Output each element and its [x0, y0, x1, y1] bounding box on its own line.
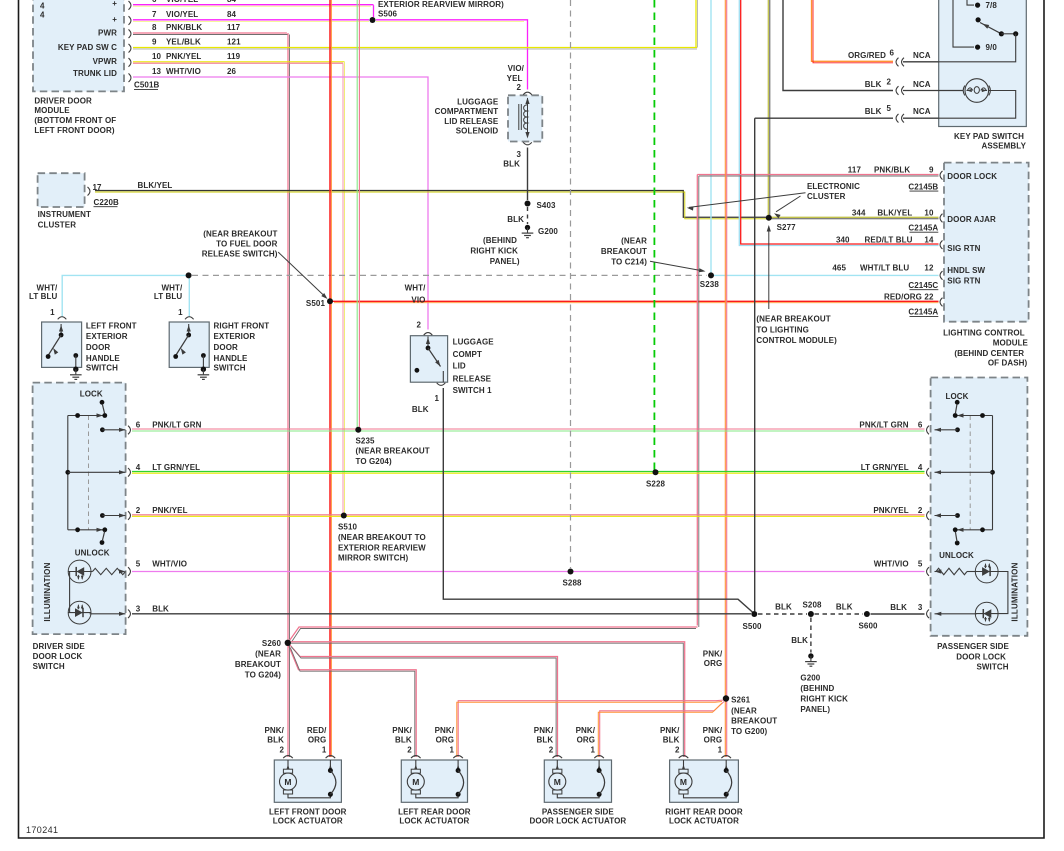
wire dashed green to S228 [653, 0, 655, 470]
wire BLK dashed S500-S208 [758, 613, 807, 615]
svg-text:PNK/: PNK/ [703, 649, 723, 658]
svg-text:DOOR LOCK: DOOR LOCK [956, 652, 1006, 661]
arrow fuel door to S501 [278, 252, 326, 297]
svg-text:(NEAR: (NEAR [621, 237, 647, 246]
svg-text:PNK/: PNK/ [264, 726, 284, 735]
svg-text:LT BLU: LT BLU [154, 292, 183, 301]
svg-text:BLK: BLK [412, 405, 429, 414]
key pad switch assembly box [939, 0, 1027, 127]
wire NCA keypad2 [903, 90, 964, 92]
svg-text:TO FUEL DOOR: TO FUEL DOOR [216, 240, 277, 249]
svg-text:VIO/YEL: VIO/YEL [166, 0, 198, 4]
svg-text:KEY PAD SWITCH: KEY PAD SWITCH [954, 132, 1024, 141]
svg-text:ORG: ORG [308, 736, 327, 745]
svg-text:S235: S235 [356, 437, 376, 446]
svg-text:TO C214): TO C214) [611, 258, 647, 267]
svg-text:344: 344 [852, 208, 866, 217]
right handle switch ground [201, 367, 206, 372]
wire WHT/LT BLU 465 to pin12 [711, 274, 939, 276]
svg-text:9: 9 [152, 38, 157, 47]
svg-text:M: M [680, 777, 687, 787]
pin bracket C501B pin 7 [129, 16, 131, 25]
pin bracket LCM pin 9 [940, 171, 942, 180]
svg-text:C220B: C220B [94, 198, 120, 207]
wire BLK dashed S208-S600 [815, 613, 864, 615]
driver LED2 to pin3 [90, 613, 126, 615]
wire PNK/BLK S260 branch left rear [289, 646, 416, 757]
svg-text:LOCK ACTUATOR: LOCK ACTUATOR [273, 817, 343, 826]
wire BLK keypad5 horizontal [755, 117, 893, 119]
wire PNK/BLK S260 branch passenger [290, 645, 558, 757]
svg-text:4: 4 [40, 11, 45, 20]
svg-text:EXTERIOR REARVIEW: EXTERIOR REARVIEW [338, 543, 426, 552]
svg-text:INSTRUMENT: INSTRUMENT [38, 210, 91, 219]
svg-text:DRIVER DOOR: DRIVER DOOR [34, 96, 92, 105]
svg-text:9/0: 9/0 [986, 43, 998, 52]
svg-text:S208: S208 [802, 601, 822, 610]
right front exterior door handle switch box [169, 322, 209, 367]
svg-text:BREAKOUT: BREAKOUT [731, 717, 777, 726]
svg-text:LIGHTING CONTROL: LIGHTING CONTROL [943, 329, 1025, 338]
svg-text:BLK/YEL: BLK/YEL [138, 181, 173, 190]
svg-text:1: 1 [178, 308, 183, 317]
pin bracket C501B pin 9 [129, 44, 131, 53]
svg-text:SWITCH: SWITCH [86, 364, 118, 373]
svg-text:(BEHIND CENTER: (BEHIND CENTER [954, 349, 1024, 358]
svg-text:LOCK ACTUATOR: LOCK ACTUATOR [399, 817, 469, 826]
svg-text:VPWR: VPWR [93, 57, 118, 66]
svg-text:C2145A: C2145A [908, 223, 938, 232]
svg-text:PWR: PWR [98, 29, 117, 38]
svg-text:MIRROR SWITCH): MIRROR SWITCH) [338, 554, 409, 563]
svg-text:PNK/: PNK/ [435, 726, 455, 735]
svg-text:7: 7 [152, 10, 157, 19]
svg-text:2: 2 [887, 77, 892, 86]
wire ORG/RED keypad [812, 0, 894, 61]
svg-text:OF DASH): OF DASH) [988, 359, 1028, 368]
wire PNK/ORG S261 down to right rear pin1 [724, 701, 726, 757]
wire WHT/LT BLU right handle switch [188, 275, 190, 316]
pin arc right handle switch [185, 317, 194, 320]
svg-text:S260: S260 [262, 639, 282, 648]
svg-text:UNLOCK: UNLOCK [75, 549, 110, 558]
svg-text:117: 117 [227, 23, 241, 32]
wire BLK pin3 row to S500 [132, 613, 751, 615]
pin arcs right rear actuator [679, 756, 689, 759]
svg-text:3: 3 [136, 604, 141, 613]
svg-text:C2145A: C2145A [908, 308, 938, 317]
svg-text:BREAKOUT: BREAKOUT [235, 660, 281, 669]
keypad 9/0 contact [953, 0, 974, 47]
wire PNK/ORG vertical to S261 [724, 0, 726, 696]
wire BLK keypad5 vertical [754, 118, 756, 611]
svg-text:PNK/YEL: PNK/YEL [873, 506, 908, 515]
svg-text:NCA: NCA [913, 51, 931, 60]
pin bracket LCM pin 22 [940, 298, 942, 307]
left front door lock actuator box [274, 760, 341, 802]
svg-text:ORG/RED: ORG/RED [848, 51, 886, 60]
svg-text:LID RELEASE: LID RELEASE [444, 117, 499, 126]
svg-text:S506: S506 [378, 10, 398, 19]
driver LED illumination 2 [68, 601, 91, 624]
pin bracket passenger switch pin 2 [927, 511, 929, 520]
svg-text:LOCK: LOCK [80, 390, 103, 399]
node S228 [653, 469, 659, 475]
svg-text:PASSENGER SIDE: PASSENGER SIDE [937, 642, 1009, 651]
svg-text:1: 1 [591, 746, 596, 755]
svg-text:ORG: ORG [704, 736, 723, 745]
svg-text:LEFT FRONT DOOR): LEFT FRONT DOOR) [34, 126, 114, 135]
wire BLK luggage switch to S500 [443, 388, 753, 613]
wire PNK/BLK 117 pin8 down to S260 [133, 32, 287, 34]
svg-text:17: 17 [93, 183, 103, 192]
svg-text:TO LIGHTING: TO LIGHTING [756, 325, 809, 334]
node S235 [355, 427, 361, 433]
svg-text:LT BLU: LT BLU [29, 292, 58, 301]
svg-text:(NEAR: (NEAR [255, 650, 281, 659]
svg-text:TO G200): TO G200) [731, 727, 767, 736]
svg-text:COMPT: COMPT [453, 350, 482, 359]
svg-text:MODULE: MODULE [34, 106, 70, 115]
svg-text:6: 6 [136, 421, 141, 430]
svg-text:2: 2 [136, 506, 141, 515]
right rear actuator motor [683, 760, 685, 770]
svg-text:BLK: BLK [267, 736, 284, 745]
svg-text:3: 3 [516, 150, 521, 159]
pin arcs left front actuator [283, 756, 293, 759]
pin bracket passenger switch pin 5 [927, 567, 929, 576]
svg-text:S288: S288 [562, 579, 582, 588]
svg-text:RELEASE SWITCH): RELEASE SWITCH) [202, 250, 278, 259]
passenger resistor pin5 [936, 568, 967, 574]
pin bracket LCM pin 12 [940, 271, 942, 280]
svg-text:NCA: NCA [913, 107, 931, 116]
pin bracket driver switch pin 4 [128, 468, 130, 477]
svg-text:26: 26 [227, 67, 237, 76]
left rear actuator motor [415, 760, 417, 770]
arrow near breakout to S277 [768, 227, 770, 310]
wire PNK/YEL row pin2 [132, 514, 925, 516]
node handle junction [186, 272, 192, 278]
svg-text:SIG RTN: SIG RTN [947, 244, 980, 253]
passenger LED2 to pin3 [935, 613, 977, 615]
svg-text:PNK/LT GRN: PNK/LT GRN [859, 421, 908, 430]
svg-text:LID: LID [453, 362, 466, 371]
svg-text:M: M [284, 777, 291, 787]
svg-text:84: 84 [227, 10, 237, 19]
driver LED illumination 1 [68, 560, 91, 583]
left rear door lock actuator box [401, 760, 467, 802]
inline connector keypad pin 5 [896, 114, 898, 123]
svg-text:HNDL SW: HNDL SW [947, 266, 985, 275]
svg-text:(NEAR: (NEAR [731, 707, 757, 716]
wire dashed to S238 [192, 274, 707, 276]
ground G200 center [525, 225, 530, 230]
svg-text:RIGHT FRONT: RIGHT FRONT [214, 321, 270, 330]
svg-text:SWITCH: SWITCH [976, 663, 1008, 672]
arrow electronic cluster to wire [689, 193, 806, 208]
svg-text:DOOR: DOOR [86, 343, 111, 352]
svg-text:TRUNK LID: TRUNK LID [73, 69, 117, 78]
svg-text:BLK: BLK [152, 604, 169, 613]
svg-text:RED/LT BLU: RED/LT BLU [865, 236, 913, 245]
pin bracket C501B pin 13 [129, 73, 131, 82]
svg-text:SWITCH: SWITCH [33, 662, 65, 671]
node S260 [285, 640, 291, 646]
svg-text:14: 14 [924, 236, 934, 245]
node S277 [766, 215, 772, 221]
svg-text:PNK/: PNK/ [660, 726, 680, 735]
svg-text:LT GRN/YEL: LT GRN/YEL [861, 463, 909, 472]
svg-text:BREAKOUT: BREAKOUT [601, 247, 647, 256]
svg-text:WHT/VIO: WHT/VIO [166, 67, 201, 76]
left handle switch ground [73, 367, 78, 372]
pin bracket LCM pin 10 [940, 214, 942, 223]
svg-text:LEFT FRONT: LEFT FRONT [86, 321, 137, 330]
svg-text:(NEAR BREAKOUT: (NEAR BREAKOUT [756, 315, 830, 324]
svg-text:G200: G200 [800, 674, 820, 683]
svg-text:(NEAR BREAKOUT: (NEAR BREAKOUT [356, 447, 430, 456]
svg-text:S238: S238 [700, 280, 720, 289]
svg-text:TO G204): TO G204) [356, 457, 392, 466]
driver resistor pin5 [93, 568, 126, 574]
svg-text:BLK: BLK [507, 215, 524, 224]
svg-text:2: 2 [416, 320, 421, 329]
passenger LED illumination 1 [975, 560, 998, 583]
svg-text:RELEASE: RELEASE [453, 374, 492, 383]
svg-text:PNK/: PNK/ [576, 726, 596, 735]
driver LED connect left [69, 572, 71, 613]
svg-text:2: 2 [549, 746, 554, 755]
svg-text:C2145B: C2145B [908, 182, 938, 191]
pin bracket C220B pin 17 [88, 187, 90, 196]
svg-text:8: 8 [152, 23, 157, 32]
svg-text:13: 13 [152, 67, 162, 76]
left front exterior door handle switch box [42, 322, 82, 367]
svg-text:ORG: ORG [704, 659, 723, 668]
left handle switch mechanism [60, 324, 62, 334]
svg-text:WHT/: WHT/ [161, 284, 183, 293]
keypad illumination lamp [965, 79, 989, 103]
svg-text:6: 6 [890, 48, 895, 57]
svg-text:BLK: BLK [663, 736, 680, 745]
svg-text:S600: S600 [858, 622, 878, 631]
wire WHT/VIO row pin5 [132, 571, 925, 573]
wire PNK/LT GRN vertical to S235 [356, 0, 358, 428]
svg-text:YEL/BLK: YEL/BLK [166, 38, 201, 47]
wire PNK/BLK S260 down to actuator1 [287, 645, 289, 757]
svg-text:DRIVER SIDE: DRIVER SIDE [33, 642, 86, 651]
svg-text:(NEAR BREAKOUT TO: (NEAR BREAKOUT TO [338, 533, 426, 542]
svg-text:121: 121 [227, 38, 241, 47]
svg-text:SWITCH 1: SWITCH 1 [453, 386, 492, 395]
svg-text:S510: S510 [338, 522, 358, 531]
luggage compt lid release switch 1 box [410, 336, 447, 383]
svg-text:ELECTRONIC: ELECTRONIC [807, 182, 860, 191]
svg-text:465: 465 [832, 264, 846, 273]
svg-text:C501B: C501B [134, 81, 160, 90]
svg-text:CLUSTER: CLUSTER [38, 221, 77, 230]
svg-text:+: + [112, 0, 117, 8]
wire NCA keypad5 [903, 117, 939, 119]
keypad wire lever to pin6 [939, 34, 1016, 62]
ground G200 right [808, 653, 813, 658]
svg-text:S500: S500 [742, 622, 762, 631]
svg-text:PNK/YEL: PNK/YEL [152, 506, 187, 515]
svg-text:KEY PAD SW C: KEY PAD SW C [58, 43, 117, 52]
svg-text:340: 340 [836, 236, 850, 245]
svg-text:HANDLE: HANDLE [214, 354, 248, 363]
svg-text:LUGGAGE: LUGGAGE [453, 337, 495, 346]
wire LT GRN/YEL row pin4 [132, 471, 925, 473]
wire NCA keypad6 [903, 61, 939, 63]
pin arc solenoid pin3 [523, 142, 532, 145]
wire WHT/LT BLU left handle switch [62, 275, 186, 316]
node S600 [864, 611, 870, 617]
wire dashed gray to S288 [570, 0, 572, 568]
svg-text:BLK: BLK [395, 736, 412, 745]
passenger lock switch mechanism [992, 416, 994, 530]
svg-text:WHT/VIO: WHT/VIO [152, 559, 187, 568]
pin bracket driver switch pin 2 [128, 511, 130, 520]
instrument cluster box [38, 173, 85, 207]
pin arc left handle switch [58, 317, 67, 320]
svg-text:4: 4 [136, 463, 141, 472]
wire BLK solenoid to S403 [527, 148, 529, 201]
svg-text:CLUSTER: CLUSTER [807, 192, 846, 201]
svg-text:SIG RTN: SIG RTN [947, 276, 980, 285]
svg-text:S403: S403 [537, 201, 557, 210]
node S500 [751, 611, 757, 617]
svg-text:117: 117 [848, 165, 862, 174]
svg-text:S277: S277 [777, 223, 797, 232]
left front actuator motor [287, 760, 289, 770]
luggage compartment lid release solenoid box [508, 95, 542, 141]
wire PNK/ORG S261 to left rear pin1 [458, 700, 724, 757]
svg-text:DOOR LOCK ACTUATOR: DOOR LOCK ACTUATOR [530, 817, 627, 826]
svg-text:DOOR LOCK: DOOR LOCK [947, 172, 997, 181]
passenger side door lock actuator box [544, 760, 611, 802]
driver door module box [33, 0, 124, 91]
node S238 [708, 272, 714, 278]
svg-text:RIGHT KICK: RIGHT KICK [800, 695, 848, 704]
svg-text:PNK/: PNK/ [392, 726, 412, 735]
passenger LED illumination 2 [975, 602, 998, 625]
svg-text:ASSEMBLY: ASSEMBLY [981, 142, 1026, 151]
svg-text:PNK/BLK: PNK/BLK [874, 165, 910, 174]
svg-text:WHT/: WHT/ [37, 284, 59, 293]
wire PNK/BLK 117 pin9 LCM [697, 174, 938, 176]
svg-text:ORG: ORG [436, 736, 455, 745]
svg-text:WHT/VIO: WHT/VIO [874, 559, 909, 568]
svg-text:2: 2 [516, 83, 521, 92]
svg-text:BLK: BLK [865, 107, 882, 116]
svg-text:1: 1 [50, 308, 55, 317]
svg-text:(BOTTOM FRONT OF: (BOTTOM FRONT OF [34, 116, 116, 125]
pin bracket driver switch pin 6 [128, 426, 130, 435]
pin arc luggage switch pin2 [424, 333, 433, 336]
svg-text:S261: S261 [731, 696, 751, 705]
wire RED/ORG 22 S501 to pin22 [330, 300, 939, 302]
svg-text:PASSENGER SIDE: PASSENGER SIDE [542, 808, 614, 817]
pin bracket C501B pin 8 [129, 29, 131, 38]
svg-text:10: 10 [152, 52, 162, 61]
svg-text:LEFT REAR DOOR: LEFT REAR DOOR [398, 808, 471, 817]
svg-text:10: 10 [924, 208, 934, 217]
node S510 [341, 513, 347, 519]
svg-text:2: 2 [675, 746, 680, 755]
inline connector keypad pin 6 [896, 58, 898, 67]
wire WHT/VIO 26 pin13 down to luggage switch [133, 77, 428, 330]
wire BLK dashed S403 to G200 [527, 207, 529, 224]
wire BLK keypad2 [783, 0, 893, 91]
svg-text:S228: S228 [646, 480, 666, 489]
passenger actuator motor [556, 760, 558, 770]
svg-text:EXTERIOR: EXTERIOR [86, 332, 128, 341]
wire VIO/YEL 84 pin6 [133, 4, 374, 6]
pin arcs left rear actuator [411, 756, 421, 759]
svg-text:ILLUMINATION: ILLUMINATION [1011, 562, 1020, 621]
svg-text:22: 22 [924, 292, 934, 301]
svg-text:4: 4 [40, 1, 45, 10]
svg-text:VIO: VIO [411, 295, 425, 304]
svg-text:PNK/: PNK/ [703, 726, 723, 735]
svg-text:12: 12 [924, 264, 934, 273]
node S506 [370, 17, 376, 23]
svg-text:2: 2 [279, 746, 284, 755]
svg-text:PANEL): PANEL) [800, 705, 830, 714]
pin bracket passenger switch pin 3 [927, 610, 929, 619]
right handle switch mechanism [188, 324, 190, 334]
svg-text:DOOR: DOOR [214, 343, 239, 352]
svg-text:119: 119 [227, 52, 241, 61]
svg-text:BLK: BLK [775, 603, 792, 612]
pin bracket driver switch pin 5 [128, 567, 130, 576]
svg-text:84: 84 [227, 0, 237, 4]
svg-text:3: 3 [918, 603, 923, 612]
node S288 [568, 569, 574, 575]
lighting control module box [944, 163, 1029, 322]
passenger side door lock switch box [931, 378, 1028, 636]
svg-text:WHT/: WHT/ [405, 284, 427, 293]
svg-text:+: + [112, 15, 117, 24]
svg-text:ILLUMINATION: ILLUMINATION [43, 562, 52, 621]
svg-text:LOCK ACTUATOR: LOCK ACTUATOR [669, 817, 739, 826]
svg-text:EXTERIOR REARVIEW MIRROR): EXTERIOR REARVIEW MIRROR) [378, 0, 504, 9]
svg-text:PNK/: PNK/ [534, 726, 554, 735]
wire VIO/YEL 84 pin7 to S506 [133, 19, 369, 21]
svg-text:M: M [412, 777, 419, 787]
pin bracket LCM pin 14 [940, 240, 942, 249]
svg-text:CONTROL MODULE): CONTROL MODULE) [756, 336, 837, 345]
svg-text:LT GRN/YEL: LT GRN/YEL [152, 463, 200, 472]
solenoid coil [518, 104, 520, 130]
wire YEL/BLK 121 pin9 [133, 47, 697, 49]
wire PNK/YEL 119 pin10 down to S510 [133, 61, 345, 63]
wire BLK/YEL 344 S277 to pin10 [771, 216, 939, 218]
svg-text:6: 6 [918, 421, 923, 430]
svg-text:(NEAR BREAKOUT: (NEAR BREAKOUT [203, 230, 277, 239]
svg-text:BLK/YEL: BLK/YEL [877, 208, 912, 217]
svg-text:UNLOCK: UNLOCK [939, 551, 974, 560]
pin arc solenoid pin2 [523, 92, 532, 95]
keypad 7/8 contact [967, 0, 974, 5]
svg-text:BLK: BLK [537, 736, 554, 745]
arrow near breakout to S238 [650, 261, 704, 271]
svg-text:PNK/BLK: PNK/BLK [166, 23, 202, 32]
wire BLK dashed S208 to G200 [810, 618, 812, 653]
svg-text:TO G204): TO G204) [245, 671, 281, 680]
